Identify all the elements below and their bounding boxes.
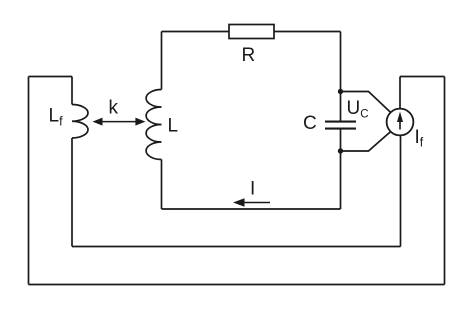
current source If [387,109,414,136]
node : top junction [338,89,343,94]
wire : outer loop right vertical [444,77,446,285]
svg-text:k: k [109,98,119,119]
svg-text:R: R [242,45,256,66]
svg-text:L: L [168,116,179,137]
wire : outer loop top right horizontal [400,76,445,78]
capacitor C [325,122,356,129]
svg-text:If: If [415,127,424,150]
wire : Lf top lead [71,77,73,105]
wire : current source arrowhead [397,112,403,123]
wire : current source arrow shaft [399,117,401,130]
wire : inner loop top right segment [274,31,341,33]
svg-text:I: I [250,179,255,200]
wire : middle bottom horizontal [72,246,401,248]
wire : current source bottom lead [400,135,402,246]
wire : inner loop right vertical lower [340,129,342,209]
wire : top branch to current source [341,92,391,113]
wire : Lf bottom lead [71,138,73,247]
wire : current source top lead [399,77,401,109]
wire : inner loop top left segment [162,31,230,33]
inductor L [146,90,161,160]
wire : inner loop bottom [162,208,341,210]
svg-text:Lf: Lf [49,106,64,129]
wire : inner loop left top lead to L [161,32,163,90]
svg-text:UC: UC [347,98,369,121]
wire : inner loop left bottom lead from L [161,160,163,210]
wire : outer loop bottom horizontal [29,284,445,286]
wire : bottom branch to current source [341,132,391,151]
current arrow I [233,198,270,207]
wire : inner loop right vertical upper (node to capacitor) [340,32,342,122]
coupling arrow k [93,118,146,126]
wire : outer loop left vertical [28,77,30,285]
inductor Lf [72,105,88,139]
node : bottom junction [338,148,343,153]
wire : Lf loop top horizontal [29,76,73,78]
resistor R [229,25,274,39]
svg-text:C: C [303,113,317,134]
